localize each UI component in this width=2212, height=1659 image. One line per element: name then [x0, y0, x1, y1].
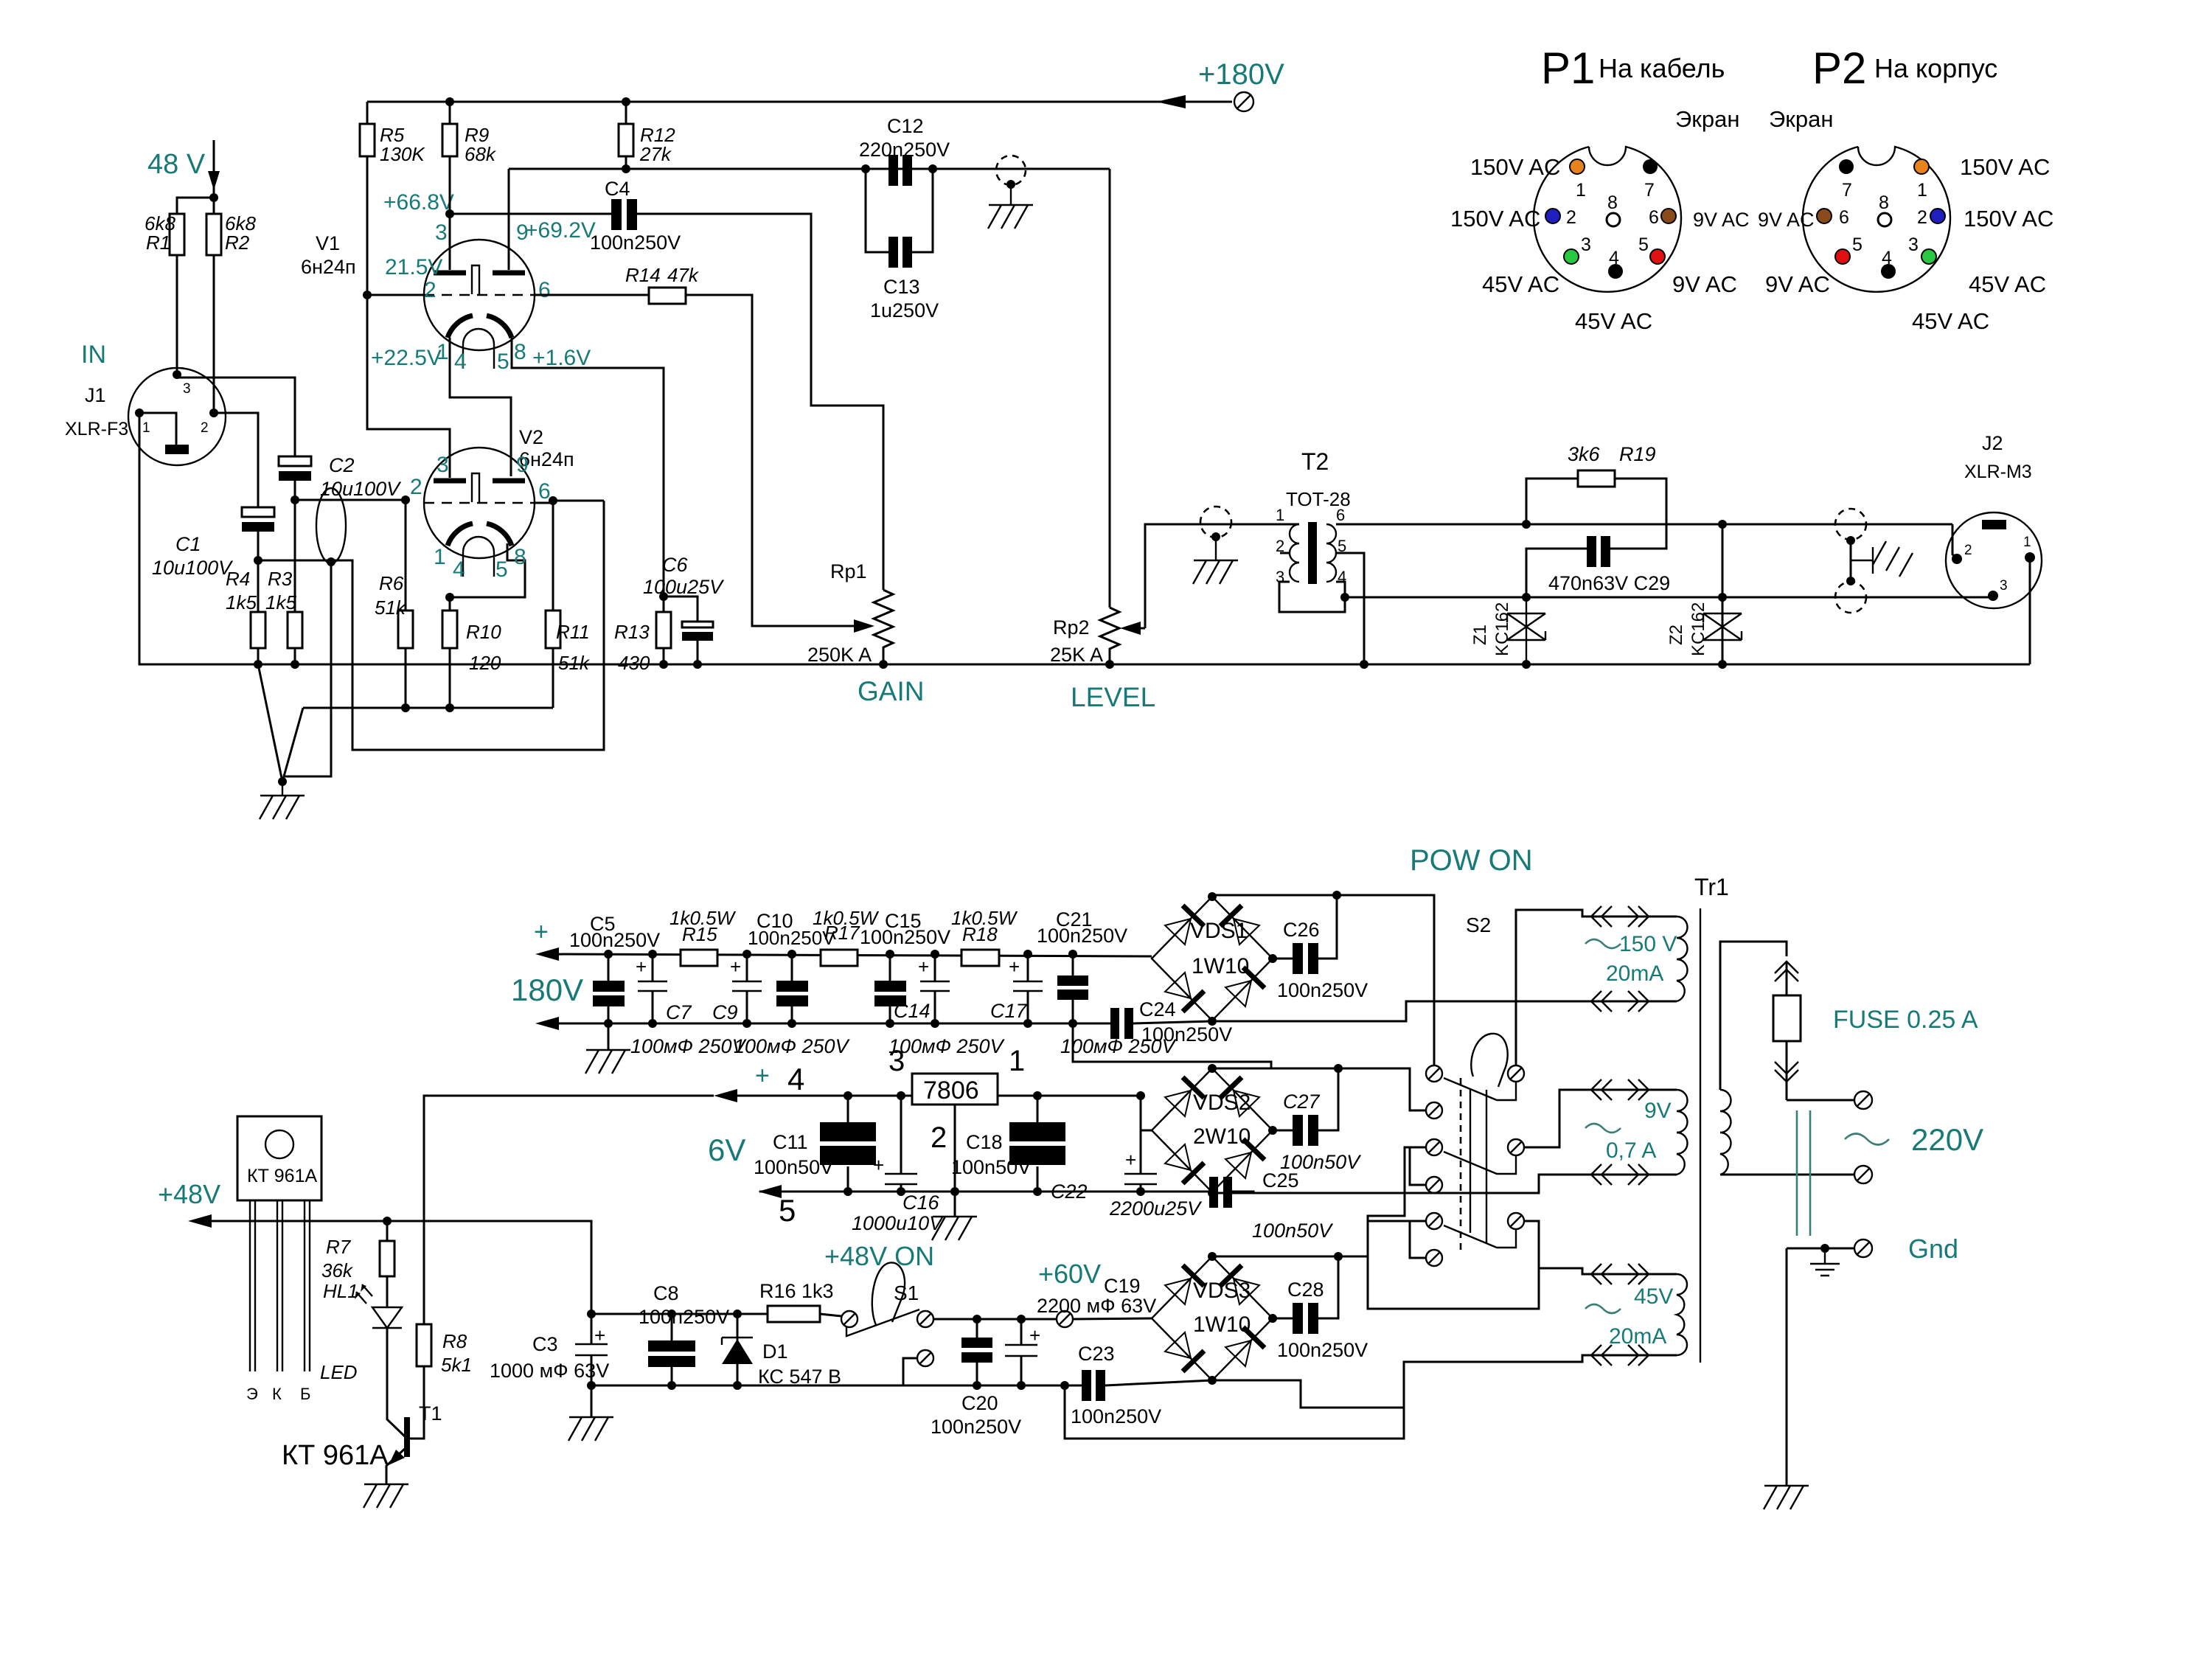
- P2 pin3: [1921, 249, 1936, 264]
- svg-text:LED: LED: [320, 1361, 358, 1383]
- connector P2 body: [1803, 147, 1950, 292]
- svg-text:220n250V: 220n250V: [859, 139, 950, 161]
- svg-text:1: 1: [1276, 506, 1284, 524]
- svg-text:+: +: [918, 956, 929, 978]
- switch S2 lever: [1471, 1034, 1507, 1087]
- svg-text:150V AC: 150V AC: [1470, 154, 1560, 180]
- svg-text:10u100V: 10u100V: [152, 557, 234, 579]
- switch S2 pole1 right: [1508, 1065, 1524, 1082]
- svg-text:25K A: 25K A: [1050, 644, 1103, 666]
- svg-text:430: 430: [618, 652, 650, 674]
- wire C13 loop: [866, 169, 933, 252]
- svg-text:5k1: 5k1: [441, 1354, 472, 1376]
- svg-text:2: 2: [931, 1121, 947, 1154]
- node C12 right: [928, 164, 937, 173]
- svg-text:+1.6V: +1.6V: [532, 346, 591, 370]
- wire S1 to C19: [933, 1318, 986, 1321]
- svg-text:100n250V: 100n250V: [748, 927, 835, 949]
- node D1 top: [733, 1310, 742, 1318]
- svg-text:R13: R13: [614, 621, 650, 643]
- ground under C5: [608, 1023, 610, 1050]
- V2 grid box: [472, 473, 479, 502]
- wire T2 pin5 down to bus: [1336, 553, 1364, 664]
- capacitor C11: [820, 1122, 876, 1141]
- capacitor C5: [593, 981, 625, 992]
- terminal +60V: [1057, 1311, 1073, 1327]
- capacitor C1: [242, 507, 274, 517]
- connector chevrons 150V top: [1591, 906, 1649, 927]
- svg-text:На кабель: На кабель: [1599, 53, 1725, 83]
- P1 pin3: [1564, 249, 1579, 264]
- svg-text:R3: R3: [268, 568, 293, 590]
- svg-text:4: 4: [454, 349, 467, 374]
- svg-text:100n50V: 100n50V: [951, 1156, 1031, 1178]
- resistor R9: [442, 124, 457, 156]
- svg-text:5: 5: [497, 349, 509, 374]
- node C19 top: [1017, 1315, 1026, 1324]
- wire J2 pin2: [1952, 524, 1957, 557]
- node R3 bus: [291, 660, 299, 669]
- svg-text:+: +: [873, 1154, 884, 1176]
- svg-text:VDS2: VDS2: [1193, 1091, 1251, 1115]
- svg-text:220V: 220V: [1911, 1122, 1983, 1157]
- wire S2 pole3 right stub: [1524, 1221, 1539, 1268]
- svg-text:100мФ 250V: 100мФ 250V: [888, 1035, 1006, 1057]
- regulator 7806: [912, 1074, 998, 1105]
- connector chevrons 9V bottom: [1591, 1164, 1649, 1185]
- wire R4 bottom: [257, 648, 260, 664]
- P1 pin6: [1661, 209, 1676, 223]
- svg-text:470n63V C29: 470n63V C29: [1548, 572, 1670, 594]
- connector J1 circle: [128, 368, 226, 465]
- wire R3 top: [294, 500, 296, 612]
- svg-text:4: 4: [1609, 248, 1619, 268]
- wire J2 pin1 to bus: [2029, 557, 2031, 664]
- P1 pin4: [1608, 264, 1623, 279]
- wire minus rail to VDS2 top: [1073, 1023, 1271, 1068]
- wire to R1: [177, 198, 214, 214]
- wire C4 right to Rp1: [637, 214, 883, 590]
- ground preamp input: [260, 782, 305, 819]
- resistor R3: [288, 612, 302, 648]
- switch S2 pole3 left bottom: [1426, 1250, 1442, 1266]
- wire J1 pin3 to C2: [177, 375, 295, 456]
- wire S2 pole2 LT feed: [1368, 1147, 1426, 1256]
- svg-text:D1: D1: [762, 1340, 788, 1363]
- svg-text:1: 1: [2023, 535, 2031, 550]
- svg-text:R4: R4: [226, 568, 250, 590]
- svg-text:1: 1: [434, 545, 446, 569]
- earth ground symbol: [1810, 1248, 1840, 1276]
- terminal +180V: [1234, 92, 1253, 111]
- P1 pin1: [1570, 159, 1585, 174]
- svg-text:C13: C13: [883, 276, 920, 298]
- wire V1 grid R5 junction: [367, 294, 424, 296]
- svg-text:Б: Б: [300, 1385, 310, 1403]
- node J2 pin2: [1952, 554, 1962, 564]
- svg-text:2: 2: [1566, 207, 1576, 228]
- ground T1: [364, 1484, 408, 1508]
- node C26 riser: [1332, 891, 1341, 900]
- capacitor C18: [1009, 1122, 1065, 1141]
- terminal dashed circle T2 input: [1200, 507, 1231, 538]
- P1 pin2: [1545, 209, 1560, 223]
- fuse chevrons bottom: [1775, 1062, 1798, 1082]
- node lower line Z2: [1718, 593, 1727, 602]
- V2 cathode arcs: [448, 524, 473, 546]
- svg-text:+: +: [1125, 1149, 1136, 1171]
- transformer T2 core: [1308, 522, 1317, 584]
- svg-text:7806: 7806: [923, 1077, 979, 1105]
- node C3/C8 top: [587, 1310, 596, 1318]
- node shield bottom: [1846, 577, 1855, 585]
- svg-text:1000 мФ 63V: 1000 мФ 63V: [490, 1360, 609, 1382]
- svg-text:C14: C14: [894, 1000, 931, 1022]
- resistor R4: [251, 612, 265, 648]
- capacitor C27: [1273, 1068, 1338, 1130]
- wire VDS3 bottom to 45V tap: [1212, 1355, 1677, 1408]
- switch S1 terminal 3: [917, 1350, 933, 1366]
- node R7 top: [383, 1217, 392, 1225]
- svg-text:Rp1: Rp1: [830, 560, 867, 582]
- svg-text:КТ 961А: КТ 961А: [282, 1440, 389, 1471]
- svg-text:9V AC: 9V AC: [1758, 209, 1815, 231]
- svg-text:3: 3: [183, 381, 191, 397]
- svg-text:5: 5: [495, 557, 508, 582]
- P1 pin7: [1643, 159, 1658, 174]
- capacitor C9: [746, 954, 748, 1023]
- svg-text:6: 6: [538, 278, 551, 302]
- P2 pin6: [1817, 209, 1832, 223]
- switch S2 pole2 left bottom: [1426, 1177, 1442, 1193]
- resistor R5: [360, 124, 375, 156]
- svg-text:6: 6: [1839, 207, 1849, 228]
- capacitor C21: [1057, 975, 1088, 986]
- node C29 lower: [1522, 593, 1531, 602]
- wire S2 pole3 LT feed: [1368, 1221, 1677, 1309]
- svg-text:2: 2: [1917, 207, 1927, 228]
- ground near C12: [988, 184, 1033, 229]
- svg-text:К: К: [272, 1385, 282, 1403]
- wire C1 net to feedback: [258, 501, 604, 750]
- P2 pin2: [1930, 209, 1945, 223]
- svg-text:100n250V: 100n250V: [931, 1416, 1021, 1438]
- svg-text:R16 1k3: R16 1k3: [759, 1280, 834, 1302]
- svg-text:T1: T1: [419, 1402, 442, 1425]
- svg-text:6н24п: 6н24п: [301, 256, 356, 278]
- svg-text:C22: C22: [1051, 1180, 1088, 1203]
- svg-text:130K: 130K: [380, 143, 425, 165]
- package legs: [250, 1200, 310, 1371]
- svg-text:1k5: 1k5: [265, 591, 296, 613]
- wire R2 to J1 pin2: [213, 255, 215, 413]
- wire R14 to Rp1 wiper: [686, 295, 863, 626]
- svg-text:На корпус: На корпус: [1874, 53, 1997, 83]
- resistor R8: [417, 1324, 431, 1366]
- connector chevrons 45V bottom: [1591, 1345, 1649, 1366]
- wire VDS2 top line: [1212, 1068, 1321, 1070]
- svg-text:100n250V: 100n250V: [639, 1306, 729, 1328]
- node J1 pin3: [173, 370, 181, 379]
- switch S1 lever: [872, 1262, 905, 1325]
- node C8 top: [667, 1310, 676, 1318]
- svg-text:3: 3: [435, 220, 448, 245]
- node R10 top: [445, 593, 454, 602]
- node Rp1 bottom: [879, 660, 888, 669]
- node J1 pin1: [135, 408, 144, 417]
- svg-text:R8: R8: [442, 1330, 467, 1352]
- svg-text:100n250V: 100n250V: [1277, 1339, 1368, 1361]
- node T2 gnd tap: [1211, 532, 1220, 541]
- svg-text:3: 3: [437, 453, 449, 477]
- svg-text:XLR-F3: XLR-F3: [65, 419, 128, 439]
- zener Z2: [1703, 613, 1742, 640]
- connector chevrons 9V top: [1591, 1079, 1649, 1100]
- svg-text:S1: S1: [894, 1281, 919, 1304]
- svg-text:R2: R2: [225, 232, 250, 254]
- P2 pin7: [1839, 159, 1854, 174]
- svg-text:100n250V: 100n250V: [1141, 1023, 1232, 1046]
- svg-text:9V: 9V: [1644, 1099, 1672, 1123]
- svg-text:5: 5: [1638, 234, 1649, 255]
- svg-text:Rp2: Rp2: [1053, 616, 1090, 639]
- svg-text:+: +: [534, 918, 549, 946]
- svg-text:FUSE 0.25 A: FUSE 0.25 A: [1833, 1006, 1978, 1034]
- svg-text:C11: C11: [773, 1131, 808, 1153]
- svg-text:C17: C17: [990, 1000, 1028, 1022]
- svg-text:68k: 68k: [465, 143, 497, 165]
- node ground tap: [1006, 180, 1015, 189]
- svg-text:47k: 47k: [667, 264, 700, 286]
- node C2 bottom: [291, 495, 299, 504]
- switch S2 pole2 blade: [1444, 1152, 1516, 1174]
- wire shield link: [1850, 540, 1852, 581]
- svg-text:150V AC: 150V AC: [1960, 154, 2050, 180]
- P2 pin4: [1881, 264, 1896, 279]
- bridge VDS3: [1152, 1256, 1273, 1380]
- svg-text:1: 1: [1917, 180, 1927, 201]
- node C20 top: [973, 1315, 981, 1324]
- svg-text:Экран: Экран: [1769, 106, 1833, 132]
- svg-text:Э: Э: [246, 1385, 258, 1403]
- svg-text:C1: C1: [175, 533, 201, 555]
- node J1 pin2: [209, 408, 218, 417]
- node Gnd earth: [1820, 1244, 1829, 1253]
- svg-text:C7: C7: [666, 1001, 692, 1023]
- fuse chevrons top: [1775, 961, 1798, 981]
- svg-text:C18: C18: [966, 1131, 1003, 1153]
- V1 anode left: [434, 271, 466, 276]
- V2 heater arch: [463, 537, 494, 577]
- svg-text:2: 2: [410, 475, 422, 499]
- svg-text:+: +: [1009, 956, 1020, 978]
- node C27 riser: [1334, 1064, 1343, 1073]
- svg-text:R18: R18: [962, 923, 998, 945]
- svg-text:48 V: 48 V: [147, 149, 206, 180]
- svg-text:9V AC: 9V AC: [1672, 271, 1737, 297]
- svg-text:2: 2: [424, 278, 437, 302]
- svg-text:C20: C20: [961, 1392, 998, 1414]
- node V2 grid / R6: [401, 495, 410, 504]
- tube V1: [424, 240, 535, 350]
- terminal dashed circle near C12: [996, 156, 1026, 185]
- wire VDS3 top line: [1212, 1256, 1368, 1258]
- node C1 bottom: [254, 556, 262, 565]
- V2 grid dashed line: [424, 502, 535, 504]
- svg-text:C16: C16: [902, 1192, 940, 1214]
- svg-text:+69.2V: +69.2V: [525, 218, 596, 243]
- switch S1 blade: [846, 1310, 919, 1336]
- wire VDS2 bottom to 9V tap: [1212, 1175, 1677, 1193]
- svg-text:+22.5V: +22.5V: [371, 346, 442, 370]
- wire V1 pin9 anode: [508, 169, 510, 270]
- wire 4 line to R8 riser: [424, 1096, 714, 1324]
- tube V2: [424, 448, 535, 558]
- wire VDS1 bottom to 150V tap: [1212, 1001, 1677, 1021]
- wire S2 pole1 LB to VDS2: [1321, 1068, 1426, 1110]
- svg-text:45V AC: 45V AC: [1912, 308, 1989, 334]
- wire terminal to VDS3: [1073, 1318, 1152, 1319]
- svg-text:+180V: +180V: [1198, 58, 1284, 91]
- svg-text:3: 3: [2000, 578, 2008, 594]
- svg-text:R15: R15: [682, 923, 717, 945]
- svg-text:180V: 180V: [511, 973, 583, 1007]
- svg-text:+: +: [594, 1324, 605, 1346]
- wire V1 pin6 to R14: [535, 294, 649, 296]
- ground under C3: [591, 1385, 593, 1417]
- transistor KT961A package: [237, 1116, 321, 1200]
- capacitor C24: [1073, 1021, 1212, 1023]
- svg-text:2W10: 2W10: [1193, 1124, 1251, 1149]
- bottom bus wire: [139, 664, 2030, 666]
- capacitor C26: [1273, 895, 1337, 959]
- wire V1 pin8 cathode to R13: [512, 338, 664, 597]
- switch S2 pole2 left top: [1426, 1139, 1442, 1155]
- svg-text:100n50V: 100n50V: [754, 1156, 833, 1178]
- svg-text:100u25V: 100u25V: [643, 576, 725, 598]
- svg-text:R17: R17: [824, 922, 860, 944]
- capacitor C25: [1209, 1177, 1218, 1208]
- capacitor C13: [888, 237, 898, 268]
- switch S1 terminal 1: [841, 1311, 858, 1327]
- switch S2 pole2 right: [1508, 1139, 1524, 1155]
- svg-text:C6: C6: [662, 554, 688, 576]
- svg-text:5: 5: [779, 1193, 796, 1228]
- switch S2 link bars: [1470, 1090, 1486, 1244]
- capacitor C6: [664, 597, 698, 664]
- wire R4 top: [257, 560, 260, 612]
- svg-text:9V AC: 9V AC: [1765, 271, 1830, 297]
- svg-text:S2: S2: [1466, 914, 1491, 936]
- svg-text:КТ 961А: КТ 961А: [247, 1166, 317, 1186]
- P2 pin8: [1878, 213, 1891, 226]
- svg-text:3: 3: [888, 1045, 905, 1077]
- svg-text:6: 6: [1649, 207, 1659, 228]
- svg-text:C23: C23: [1078, 1343, 1115, 1365]
- capacitor C20: [961, 1338, 992, 1348]
- svg-text:VDS1: VDS1: [1190, 919, 1248, 943]
- capacitor C16: [900, 1096, 902, 1192]
- V1 grid box: [472, 265, 479, 294]
- diode D1 zener: [737, 1314, 739, 1385]
- capacitor C17: [1027, 954, 1029, 1023]
- resistor R15: [681, 950, 717, 966]
- svg-text:+: +: [636, 956, 647, 978]
- wire R1 to J1 pin3: [176, 255, 178, 375]
- svg-text:3: 3: [1581, 234, 1591, 255]
- node R13 bottom: [659, 660, 668, 669]
- wire C2 bottom to V2 grid line: [294, 481, 296, 500]
- 180V plus rail: [549, 954, 1152, 956]
- svg-text:+: +: [730, 956, 741, 978]
- svg-text:IN: IN: [81, 341, 106, 369]
- svg-text:Gnd: Gnd: [1908, 1234, 1958, 1264]
- svg-text:R14: R14: [625, 264, 661, 286]
- switch S2 pole3 left top: [1426, 1213, 1442, 1229]
- switch S2 pole1 blade: [1444, 1078, 1516, 1100]
- node C22 top: [1136, 1091, 1145, 1100]
- node R10 bias: [445, 703, 454, 712]
- svg-text:GAIN: GAIN: [858, 676, 924, 706]
- winding 45V: [1677, 1274, 1687, 1355]
- wire 48V feed arrow: [213, 140, 215, 198]
- svg-text:+60V: +60V: [1038, 1259, 1101, 1289]
- potentiometer Rp2: [1100, 608, 1119, 664]
- svg-text:0,7 A: 0,7 A: [1606, 1138, 1656, 1163]
- switch S2 pole3 blade: [1444, 1225, 1516, 1248]
- svg-text:51k: 51k: [375, 597, 407, 619]
- svg-text:27k: 27k: [639, 143, 672, 165]
- P1 pin5: [1650, 249, 1665, 264]
- transformer screen lines: [1797, 1110, 1810, 1236]
- switch S1 terminal 2: [917, 1311, 933, 1327]
- ground at output shield: [1851, 541, 1913, 577]
- node V2 pin6: [549, 496, 557, 505]
- P1 pin8: [1607, 213, 1620, 226]
- node 48V junction: [209, 193, 218, 202]
- resistor R16: [768, 1306, 820, 1322]
- J2 ground tab: [1982, 520, 2006, 529]
- svg-text:C19: C19: [1104, 1275, 1141, 1297]
- wire R4 slant to ground: [258, 664, 282, 782]
- winding 9V: [1677, 1090, 1688, 1175]
- svg-text:T2: T2: [1301, 448, 1329, 475]
- svg-text:2: 2: [201, 420, 209, 436]
- svg-text:V1: V1: [316, 232, 340, 254]
- svg-text:100n250V: 100n250V: [1037, 925, 1127, 947]
- ground chassis at bottom: [1764, 1486, 1809, 1509]
- svg-text:8: 8: [514, 340, 526, 364]
- capacitor C2: [279, 456, 311, 466]
- resistor R7: [380, 1241, 394, 1276]
- svg-text:LEVEL: LEVEL: [1071, 682, 1155, 712]
- wire Rp2 wiper to T2: [1145, 524, 1299, 628]
- node C11 top: [844, 1091, 852, 1100]
- svg-text:4: 4: [787, 1062, 804, 1096]
- svg-text:C24: C24: [1139, 998, 1176, 1020]
- svg-text:Экран: Экран: [1675, 106, 1739, 132]
- connector J2 circle: [1946, 512, 2042, 608]
- svg-text:45V: 45V: [1634, 1284, 1673, 1309]
- wire S2 pole3 LB jumper: [1410, 1221, 1426, 1258]
- svg-text:P1: P1: [1541, 44, 1595, 93]
- capacitor C15: [874, 981, 906, 992]
- svg-text:XLR-M3: XLR-M3: [1964, 462, 2032, 482]
- node T2 pin5 bus: [1360, 660, 1368, 669]
- svg-text:100мФ 250V: 100мФ 250V: [734, 1035, 851, 1057]
- resistor R6: [398, 611, 413, 648]
- node J2 pin1: [2025, 552, 2035, 563]
